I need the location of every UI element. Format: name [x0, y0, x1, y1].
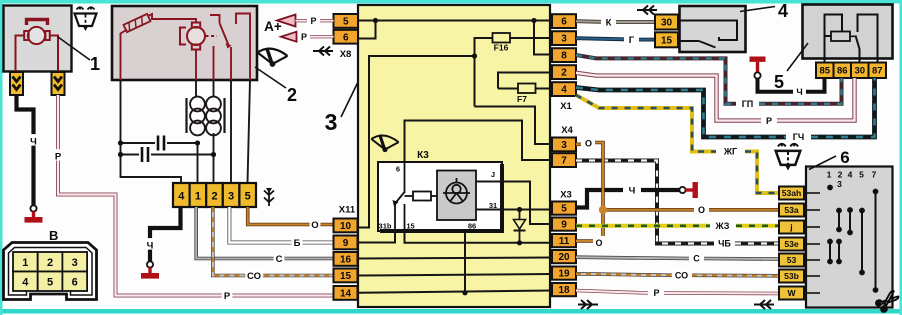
- wire X8-6 to bus: [358, 21, 376, 39]
- connector X11 pin 9: [334, 236, 358, 250]
- svg-text:Х8: Х8: [340, 49, 352, 60]
- wire K3 J to X3-9: [476, 182, 552, 225]
- wire F16 branch: [475, 38, 553, 107]
- svg-text:О: О: [585, 139, 592, 149]
- svg-text:Г: Г: [629, 35, 635, 46]
- svg-text:86: 86: [837, 66, 848, 77]
- wire K3 15 to X3-11: [405, 231, 553, 243]
- connector X11 pin 10: [334, 219, 358, 233]
- svg-text:6: 6: [561, 17, 567, 28]
- svg-text:2: 2: [287, 85, 297, 105]
- ground (wiper motor): [147, 261, 153, 267]
- svg-text:3: 3: [837, 179, 842, 189]
- switch contact bar col4: [849, 210, 851, 233]
- svg-text:53a: 53a: [784, 205, 799, 215]
- wiper switch pin j: [779, 221, 804, 234]
- svg-text:Р: Р: [301, 32, 307, 42]
- diode VD: [519, 210, 521, 243]
- svg-text:ГП: ГП: [742, 99, 754, 109]
- svg-text:Х1: Х1: [560, 101, 572, 112]
- svg-text:С: С: [276, 254, 283, 265]
- continuation mark near comp4: [637, 6, 657, 15]
- switch contact bar col2 lower: [838, 242, 840, 262]
- wiper switch pin 53a: [779, 204, 804, 217]
- wiper switch pin 53ah: [779, 187, 804, 200]
- svg-text:В: В: [49, 228, 58, 243]
- wire О junction to switch 53a: [603, 208, 694, 212]
- wire К X1-6 to ignition pin 30: [576, 19, 601, 23]
- svg-text:С: С: [693, 254, 700, 264]
- wiper switch 6 body: [806, 167, 893, 308]
- svg-text:31b: 31b: [379, 222, 392, 231]
- connector X3 pin 18: [552, 283, 576, 296]
- wire: pink Р from comp1 to X11-14: [58, 95, 333, 296]
- svg-text:3: 3: [228, 191, 234, 203]
- wire: black Ч from strip pin 4 to ground: [150, 207, 181, 262]
- svg-text:ЖГ: ЖГ: [723, 147, 737, 157]
- label 1 leader: [58, 37, 90, 60]
- wire ЧБ X4-7 to switch 53e: [576, 161, 714, 244]
- mounting block 3 body: [358, 5, 550, 307]
- connector X3 pin 5: [552, 202, 576, 215]
- svg-text:Р: Р: [224, 291, 231, 302]
- wire K3 31b to X11-9: [358, 231, 395, 243]
- svg-text:2: 2: [838, 170, 843, 180]
- svg-text:53b: 53b: [784, 271, 799, 281]
- svg-text:F16: F16: [494, 43, 509, 53]
- comp2 lower wires: [121, 80, 251, 183]
- connector B cells 1-6: [13, 252, 38, 272]
- connector X1 pin 3: [552, 31, 576, 45]
- wire K3 31 to X3-5: [476, 209, 552, 211]
- svg-text:15: 15: [661, 35, 673, 46]
- svg-text:Р: Р: [653, 288, 659, 298]
- wire X1-2 to F7: [498, 73, 552, 89]
- svg-text:1: 1: [195, 191, 201, 203]
- svg-text:53ah: 53ah: [782, 188, 802, 198]
- relay 5 coil circuit: [825, 15, 843, 63]
- svg-text:6: 6: [343, 32, 349, 43]
- wire K3 86 to X3-18 wire: [464, 233, 466, 293]
- wire Ч X3-5 to ground: [576, 190, 623, 208]
- wire F7 to X1-4: [498, 88, 552, 90]
- svg-text:5: 5: [561, 204, 567, 215]
- svg-text:86: 86: [468, 222, 476, 231]
- svg-text:К3: К3: [417, 150, 429, 161]
- svg-text:53e: 53e: [784, 239, 799, 249]
- washer nozzle icon (comp 1): [75, 7, 97, 28]
- wire: orange О from strip pin 5 to X11-10: [248, 207, 333, 225]
- svg-text:Р: Р: [55, 151, 62, 162]
- connector X11 pin 15: [334, 269, 358, 283]
- wiper motor 2 : housing: [112, 6, 257, 80]
- connector X1 pin 4: [552, 82, 576, 96]
- wiper switch pin 53b: [779, 270, 804, 283]
- wire Ч relay85 to ground: [806, 78, 825, 92]
- fuse F16: [493, 33, 511, 43]
- fuse F7: [518, 84, 536, 94]
- svg-text:6: 6: [840, 148, 849, 167]
- capacitor C1: [157, 136, 160, 151]
- svg-text:Х4: Х4: [561, 125, 573, 136]
- capacitor C2: [141, 147, 144, 162]
- svg-text:Р: Р: [766, 116, 772, 126]
- comp1 connector pin left: [10, 72, 23, 95]
- svg-text:ЧБ: ЧБ: [718, 239, 731, 249]
- wire to X4-3: [475, 107, 553, 145]
- svg-text:Ч: Ч: [629, 185, 636, 196]
- svg-text:5: 5: [245, 191, 251, 203]
- svg-text:5: 5: [343, 17, 349, 28]
- wire X4-7 to K3 coil feed: [405, 121, 553, 162]
- ignition relay 5 body: [803, 5, 893, 59]
- orange junction dot: [599, 206, 607, 214]
- wiper switch pin 53e: [779, 238, 804, 251]
- svg-text:О: О: [698, 205, 705, 215]
- relay 5 coil: [831, 32, 850, 42]
- washer nozzle icon (comp 6): [776, 144, 801, 167]
- label 2 leader: [255, 67, 286, 88]
- connector X1 pin 8: [552, 48, 576, 62]
- wire: black Ч from comp1 to ground: [17, 95, 34, 206]
- wire С X3-20 to switch 53: [576, 257, 689, 258]
- K3 coil: [413, 192, 431, 201]
- comp1 connector pin right: [52, 72, 65, 95]
- switch contact bar col2 upper: [838, 211, 840, 230]
- relay 5 pins 85 86 30 87: [816, 63, 834, 79]
- switch contact bar col5: [861, 211, 863, 273]
- label 6 leader: [809, 156, 836, 170]
- svg-text:4: 4: [778, 1, 788, 21]
- svg-text:87: 87: [872, 66, 883, 77]
- supply arrow to X8-5: [277, 15, 296, 27]
- svg-text:16: 16: [340, 255, 352, 266]
- connector X3 pin 11: [552, 234, 576, 247]
- svg-text:7: 7: [561, 156, 567, 167]
- ignition switch pin 15: [655, 32, 678, 47]
- connector X1 pin 6: [552, 14, 576, 28]
- connector X4 pin 3: [552, 138, 576, 152]
- wire СО X3-19 to switch 53b: [576, 274, 672, 276]
- switch contact bar col1 lower: [829, 242, 831, 262]
- connector X3 pin 20: [552, 250, 576, 263]
- svg-text:15: 15: [406, 222, 414, 231]
- svg-text:Ч: Ч: [147, 240, 154, 251]
- block internal top bus wire: [358, 21, 552, 228]
- svg-text:F7: F7: [517, 94, 527, 104]
- svg-text:20: 20: [558, 252, 570, 263]
- wire bus to X1-8: [534, 21, 552, 55]
- svg-text:1: 1: [90, 54, 100, 74]
- svg-text:4: 4: [561, 85, 567, 96]
- label 4 leader: [740, 7, 775, 12]
- svg-text:j: j: [789, 222, 792, 232]
- washer pump motor 1 : housing: [4, 6, 72, 72]
- supply arrow to X8-6: [281, 32, 297, 42]
- wiper icon (comp 2): [258, 48, 288, 64]
- svg-text:7: 7: [872, 170, 877, 180]
- svg-text:10: 10: [340, 221, 352, 232]
- suppression choke L: [187, 97, 225, 136]
- wire: СО from strip pin 2 to X11-15: [213, 207, 333, 276]
- connector B shell: [4, 243, 97, 300]
- connector X8 pin 6: [334, 30, 359, 44]
- wire Г X1-3 to ignition pin 15: [576, 38, 624, 39]
- K3 motor driver box: [437, 171, 476, 221]
- svg-text:30: 30: [854, 66, 865, 77]
- wiper switch pin 53: [779, 254, 804, 267]
- connector X3 pin 19: [552, 267, 576, 280]
- connector X1 pin 2: [552, 65, 576, 79]
- svg-text:5: 5: [47, 277, 53, 289]
- ground for relay 5 (inverted): [750, 57, 766, 62]
- connector X11 pin 14: [334, 286, 358, 300]
- svg-text:18: 18: [558, 285, 570, 296]
- wire ГП X1-8 to relay 86: [576, 55, 736, 104]
- svg-text:9: 9: [343, 238, 349, 249]
- svg-text:Х3: Х3: [560, 190, 572, 201]
- svg-text:14: 14: [340, 289, 352, 300]
- wire ЖГ X1-4 to switch 53ah: [576, 95, 716, 152]
- continuation mark after X3-18: [578, 300, 598, 309]
- connector X11 pin 16: [334, 252, 358, 266]
- svg-text:3: 3: [72, 257, 78, 269]
- svg-text:4: 4: [848, 170, 853, 180]
- svg-text:ГЧ: ГЧ: [793, 132, 804, 142]
- svg-text:6: 6: [72, 277, 78, 289]
- svg-text:3: 3: [561, 34, 567, 45]
- ground (sideways) for X3-5: [679, 187, 685, 193]
- svg-text:5: 5: [859, 170, 864, 180]
- switch contact bar col7: [875, 192, 877, 291]
- svg-text:Б: Б: [294, 238, 301, 249]
- svg-text:85: 85: [819, 66, 830, 77]
- svg-text:30: 30: [661, 18, 673, 29]
- svg-text:4: 4: [22, 277, 29, 289]
- svg-text:СО: СО: [675, 271, 688, 281]
- washer pump motor symbol: [16, 20, 59, 72]
- svg-text:2: 2: [47, 257, 53, 269]
- svg-text:1: 1: [22, 257, 28, 269]
- ignition switch 4 body: [680, 6, 746, 52]
- svg-text:J: J: [491, 170, 495, 179]
- wire: gray С from strip pin 1 to X11-16: [196, 207, 333, 259]
- connector X3 pin 9: [552, 218, 576, 231]
- svg-text:К: К: [606, 17, 612, 28]
- wire Р X1-2 to relay 30: [576, 73, 761, 121]
- svg-text:5: 5: [774, 72, 784, 92]
- relay 5 contact circuit: [856, 15, 878, 63]
- svg-text:4: 4: [178, 191, 185, 203]
- wiper motor connector strip pins 4,1,2,3,5: [173, 183, 190, 207]
- svg-text:11: 11: [559, 236, 570, 247]
- svg-text:Х11: Х11: [339, 205, 356, 216]
- junction dots choke/caps: [118, 140, 123, 145]
- svg-text:1: 1: [827, 170, 832, 180]
- wiper icon inside block: [371, 135, 398, 150]
- ignition switch pin 30: [655, 15, 678, 30]
- relay K3 box: [378, 162, 502, 231]
- wire О X4-3 orange net: [576, 143, 581, 147]
- wire X11-14 to X3-18: [358, 291, 552, 293]
- wire X11-16 to X3-20: [358, 258, 552, 259]
- wire ЖЗ X3-9 to switch j: [576, 224, 710, 228]
- svg-text:53: 53: [787, 255, 797, 265]
- svg-text:8: 8: [561, 51, 567, 62]
- svg-text:Р: Р: [310, 16, 316, 26]
- svg-text:6: 6: [396, 165, 400, 174]
- K3 motor symbol: [443, 178, 470, 204]
- svg-text:2: 2: [211, 191, 217, 203]
- wire X11-15 to X3-19: [358, 274, 552, 276]
- svg-text:Ч: Ч: [30, 136, 37, 147]
- svg-text:3: 3: [325, 109, 338, 135]
- label 5 leader: [787, 43, 808, 71]
- ignition switch contacts: [680, 21, 738, 48]
- wiper switch pin W: [779, 287, 804, 300]
- svg-text:Ч: Ч: [796, 87, 802, 97]
- label 3 leader: [341, 82, 358, 117]
- junction dots on bus: [373, 18, 378, 23]
- K3 internal switch: [395, 161, 405, 231]
- svg-text:2: 2: [561, 68, 567, 79]
- wire: white Б from strip pin 3 to X11-9: [229, 207, 333, 243]
- continuation mark before W: [754, 300, 774, 309]
- svg-text:W: W: [787, 288, 796, 298]
- ground (comp 1): [30, 205, 36, 211]
- svg-text:О: О: [311, 220, 318, 231]
- svg-text:19: 19: [558, 269, 570, 280]
- comp2 internal wires: [121, 14, 251, 81]
- chassis ground icon near strip: [264, 188, 274, 206]
- continuation mark at X8: [313, 47, 333, 56]
- comp2 motor symbol: [180, 23, 205, 50]
- svg-text:15: 15: [340, 271, 352, 282]
- svg-text:О: О: [595, 238, 602, 248]
- wire ГЧ X1-4 to relay 87: [576, 88, 786, 138]
- connector X4 pin 7: [552, 153, 576, 167]
- svg-text:9: 9: [561, 220, 567, 231]
- svg-text:3: 3: [561, 140, 567, 151]
- thermo fuse resistor inside comp2: [124, 14, 151, 32]
- connector X8 pin 5: [334, 14, 359, 28]
- svg-text:СО: СО: [247, 271, 261, 282]
- wire Р X3-18 to switch W: [576, 291, 648, 294]
- svg-text:ЖЗ: ЖЗ: [715, 221, 730, 231]
- switch contact dot col1 top: [827, 185, 833, 191]
- wire junction to K3 switch branch: [358, 56, 475, 228]
